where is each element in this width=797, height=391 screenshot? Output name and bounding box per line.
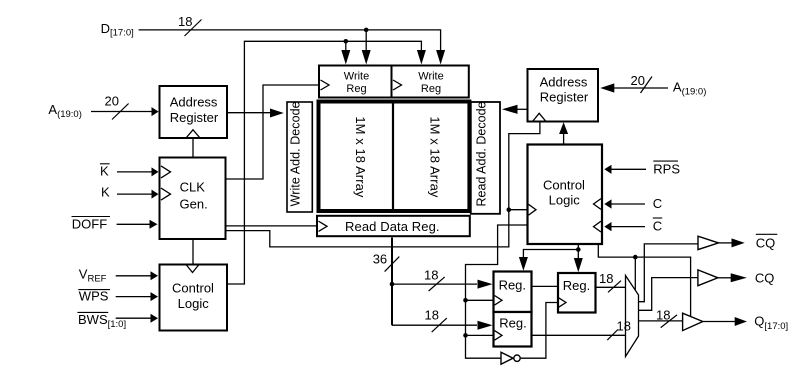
overline RPS (653, 160, 678, 162)
node reg clock junction lower (463, 333, 468, 338)
svg-text:1M x 18 Array: 1M x 18 Array (428, 116, 443, 198)
BOX TEXTS (170, 71, 590, 331)
svg-text:Read Data Reg.: Read Data Reg. (345, 219, 440, 234)
node D bus junction (364, 28, 369, 33)
wire WPS input (116, 296, 151, 298)
caret clk gen Kbar (161, 166, 171, 178)
svg-text:Reg.: Reg. (563, 278, 590, 293)
arrow DOFF (150, 220, 158, 229)
svg-text:18: 18 (178, 14, 192, 29)
arrow C (604, 199, 611, 208)
caret control logic C-bar (594, 221, 602, 232)
wire BWS input (116, 317, 151, 319)
slash 36 (385, 257, 400, 272)
control logic right box (528, 145, 603, 245)
arrow control into reg1 top (519, 257, 528, 271)
overline C bar (653, 217, 662, 219)
svg-text:Address: Address (170, 95, 218, 110)
overline CQ bar (756, 233, 778, 235)
wire mux to CQ buffer (639, 278, 698, 311)
slash A left 20 (112, 104, 129, 120)
svg-text:Write: Write (344, 71, 369, 83)
wire clkgen K distribution (226, 122, 540, 247)
arrow C-bar (604, 222, 611, 231)
svg-text:18: 18 (617, 319, 631, 334)
wire K to control logic caret (509, 209, 527, 211)
arrow into reg1 lower (478, 321, 493, 330)
wire DOFF input (117, 223, 150, 225)
arrow write line into right write reg (417, 50, 426, 65)
caret read data reg (319, 221, 328, 231)
wire write-control drop (345, 41, 347, 50)
wire address reg to write decode (227, 112, 271, 114)
reg1 upper box (494, 272, 532, 313)
address register left box (160, 86, 228, 138)
node 36 trunk junction (390, 282, 395, 287)
caret addr reg left bottom (186, 130, 200, 138)
wire right addr reg to read decode (517, 108, 528, 110)
svg-text:Read Add. Decode: Read Add. Decode (474, 101, 488, 206)
slash 18 Q out (661, 315, 677, 328)
svg-text:CQ: CQ (755, 270, 775, 285)
wire A(19:0) left input (91, 111, 152, 113)
svg-text:RPS: RPS (653, 161, 680, 176)
arrow VREF (151, 271, 159, 280)
caret addr reg right bottom (533, 113, 547, 121)
caret control logic C (594, 199, 602, 210)
wire inverter to reg2 caret (521, 303, 559, 359)
svg-text:Gen.: Gen. (180, 197, 208, 212)
arrow CQbar out (732, 238, 745, 247)
wire D bus horizontal (139, 30, 441, 50)
caret clk gen K (161, 188, 171, 200)
wire control logic bottom to reg clocks (523, 244, 578, 259)
wire C clock jog to output regs (466, 225, 528, 358)
wire Q output (703, 321, 735, 323)
svg-text:CLK: CLK (180, 179, 206, 194)
wire control logic to addr reg (563, 133, 565, 145)
arrow Q out (735, 317, 747, 326)
address register right box (528, 69, 599, 122)
node reg clock junction upper (463, 298, 468, 303)
arrow into read add decode (502, 105, 518, 114)
node write line junction (344, 39, 349, 44)
svg-text:Control: Control (543, 177, 585, 192)
buffer CQ (698, 270, 718, 286)
svg-text:Logic: Logic (178, 296, 210, 311)
wire to reg1 lower caret (466, 334, 495, 336)
arrow D into right write reg (436, 50, 445, 65)
wire clkgen to write reg clocks (226, 85, 320, 179)
svg-text:Control: Control (172, 281, 214, 296)
slash 18 lower to mux (607, 330, 618, 341)
wire reg1 to reg2 (532, 285, 559, 287)
wire reg lower to mux (532, 334, 626, 336)
svg-text:36: 36 (373, 251, 387, 266)
wire 18 bus upper to reg (392, 283, 477, 285)
svg-text:Reg: Reg (346, 83, 366, 95)
arrow control to addr reg up (559, 122, 568, 134)
BOXES (160, 66, 603, 347)
memory array box (319, 102, 470, 212)
svg-text:Register: Register (170, 110, 219, 125)
arrow control into reg2 top (574, 258, 583, 272)
slash A right 20 (641, 77, 653, 94)
wire C-bar input (611, 226, 645, 228)
buffer Q (683, 313, 703, 330)
wire A(19:0) right input (614, 87, 668, 89)
slash 18 reg2 to mux (608, 281, 621, 293)
overline WPS (78, 289, 110, 291)
overline K bar (100, 163, 110, 165)
svg-text:K: K (100, 164, 109, 179)
svg-text:Register: Register (540, 90, 589, 105)
node control bottom junction (576, 247, 581, 252)
svg-text:18: 18 (425, 307, 439, 322)
wire CQ output (718, 277, 731, 279)
wire K input (117, 193, 152, 195)
arrow K (152, 190, 159, 199)
svg-text:Write: Write (418, 71, 443, 83)
SOLID ARROWHEADS (150, 50, 747, 330)
wire addr reg clock (192, 139, 194, 158)
wire CQbar output (719, 242, 733, 244)
caret reg1 lower (495, 331, 503, 341)
svg-text:C: C (653, 196, 662, 211)
wire mux to CQbar buffer (639, 244, 698, 302)
wire read data reg 36 trunk (391, 238, 393, 326)
overline BWS (77, 311, 108, 313)
CLOCK CARETS (161, 80, 601, 340)
arrow into reg1 upper (478, 280, 493, 289)
overline DOFF (72, 216, 111, 218)
wire to reg1 upper caret (466, 299, 495, 301)
arrow RPS (604, 165, 611, 174)
svg-text:20: 20 (105, 94, 119, 109)
wire mux select (634, 257, 636, 292)
reg1 lower box (494, 312, 532, 347)
wire C input (611, 203, 645, 205)
control logic left box (160, 265, 228, 331)
wire clkgen to control logic (192, 239, 194, 264)
wire K-bar input (117, 171, 152, 173)
read add decode box (471, 102, 500, 214)
node mux select junction (633, 255, 638, 260)
caret control logic left top (186, 265, 199, 273)
clk gen box (160, 158, 226, 240)
wire reg2 to mux (596, 286, 626, 288)
write reg left box (319, 66, 392, 98)
svg-text:K: K (101, 185, 110, 200)
svg-text:18: 18 (424, 267, 438, 282)
wire control logic to output enable (598, 244, 690, 317)
svg-text:CQ: CQ (756, 235, 776, 250)
arrow K-bar (152, 167, 159, 176)
svg-text:18: 18 (599, 271, 613, 286)
node K line junction (507, 207, 512, 212)
arrow write line into left write reg (341, 50, 350, 65)
arrow WPS (151, 292, 159, 301)
caret reg2 (559, 298, 567, 308)
wire clkgen to read data reg clock (226, 225, 318, 227)
svg-text:1M x 18 Array: 1M x 18 Array (353, 116, 368, 198)
wire mux to Q buffer (639, 320, 683, 322)
slash 18 lower reg bus (432, 318, 447, 332)
arrow D into left write reg (362, 50, 371, 65)
slash 18 upper reg bus (429, 277, 445, 291)
svg-text:Reg.: Reg. (499, 315, 526, 330)
read data reg box (317, 216, 470, 236)
caret control logic right left-edge (529, 204, 537, 215)
array divider (392, 103, 394, 212)
arrow A left into address register (152, 107, 159, 116)
caret write reg right (393, 80, 402, 90)
slash D bus 18 (185, 20, 202, 37)
BUS SLASHES (112, 20, 677, 341)
svg-text:Address: Address (540, 75, 588, 90)
caret reg1 upper (495, 296, 503, 306)
reg2 box (558, 273, 596, 313)
wire VREF input (116, 275, 151, 277)
caret write reg left (321, 80, 330, 90)
svg-text:C: C (653, 219, 662, 234)
svg-text:Reg: Reg (421, 83, 441, 95)
wire write-control line (227, 41, 421, 284)
svg-text:DOFF: DOFF (72, 217, 107, 232)
wire 18 bus lower to reg (392, 324, 477, 326)
svg-text:18: 18 (656, 307, 670, 322)
write reg right box (392, 66, 469, 98)
arrow BWS (151, 314, 159, 323)
arrow CQ out (731, 273, 747, 282)
arrow A right into address register (600, 83, 614, 92)
write add decode box (287, 102, 312, 212)
svg-text:Reg.: Reg. (499, 277, 526, 292)
svg-text:20: 20 (631, 73, 645, 88)
svg-text:Write Add. Decode: Write Add. Decode (289, 101, 303, 206)
svg-text:WPS: WPS (79, 289, 109, 304)
arrow into write add decode (270, 109, 284, 118)
svg-text:Logic: Logic (549, 193, 581, 208)
wire D bus drop left (365, 30, 367, 50)
buffer CQbar (698, 236, 719, 249)
wire RPS input (611, 168, 646, 170)
mux (626, 276, 639, 357)
inverter (501, 352, 520, 364)
OVERLINES (72, 161, 778, 312)
